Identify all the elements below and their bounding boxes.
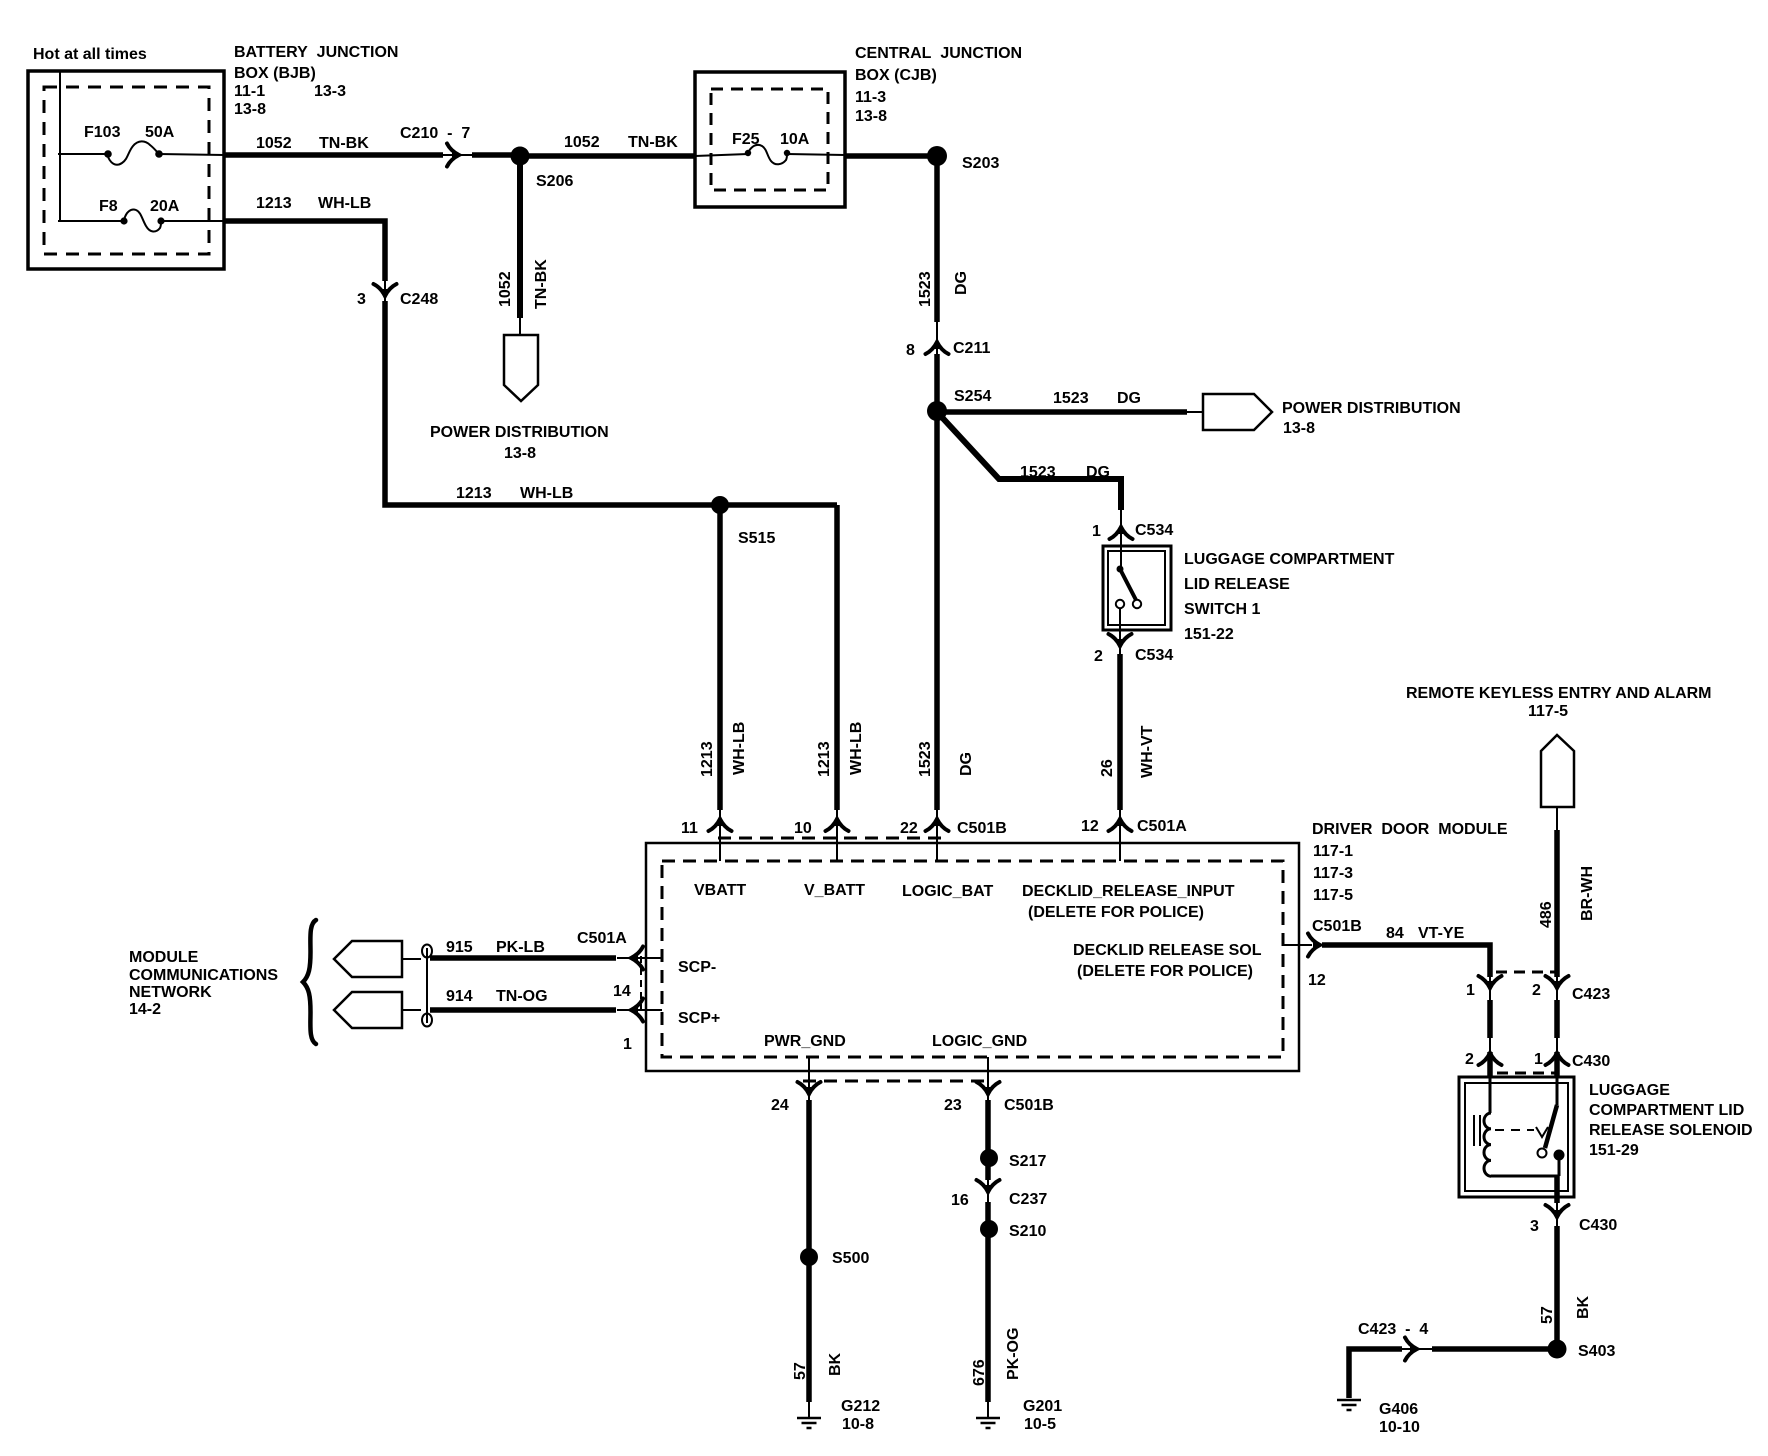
wire 1213 WH-LB from F8 to C248: [224, 221, 385, 281]
wire 26 WH-VT from switch to module pin 12: [1117, 654, 1123, 810]
svg-text:915: 915: [446, 939, 473, 956]
svg-text:11: 11: [681, 820, 698, 837]
svg-text:14: 14: [613, 983, 631, 1000]
driver door module inner dashed box: [662, 861, 1283, 1057]
connector C501B output arrow: [1308, 934, 1324, 957]
solenoid coil core lines: [1473, 1115, 1475, 1146]
svg-text:24: 24: [771, 1097, 789, 1114]
fuse F25 10A: [695, 131, 845, 164]
svg-text:16: 16: [951, 1192, 969, 1209]
splice S217: [980, 1149, 998, 1167]
wire 57 BK from C430 to S403: [1554, 1226, 1560, 1349]
svg-text:1: 1: [1466, 982, 1475, 999]
svg-text:NETWORK: NETWORK: [129, 984, 212, 1001]
svg-text:PK-OG: PK-OG: [1005, 1328, 1022, 1380]
svg-text:8: 8: [906, 342, 915, 359]
splice S210: [980, 1220, 998, 1238]
svg-text:50A: 50A: [145, 124, 175, 141]
wire 1213 WH-LB S515 down to module pin 11: [717, 505, 723, 810]
svg-text:C501B: C501B: [1312, 918, 1362, 935]
svg-text:WH-LB: WH-LB: [848, 722, 865, 775]
svg-text:13-8: 13-8: [855, 108, 887, 125]
svg-text:WH-LB: WH-LB: [318, 195, 371, 212]
connector C430 dashed line: [1497, 1072, 1556, 1075]
svg-text:S500: S500: [832, 1250, 869, 1267]
svg-text:C423 - 4: C423 - 4: [1358, 1321, 1428, 1338]
svg-text:C430: C430: [1579, 1217, 1617, 1234]
svg-text:DRIVER DOOR MODULE: DRIVER DOOR MODULE: [1312, 821, 1508, 838]
off-page connector network flag lower: [334, 992, 402, 1028]
splice S254: [927, 401, 947, 421]
svg-text:RELEASE SOLENOID: RELEASE SOLENOID: [1589, 1122, 1753, 1139]
svg-text:C211: C211: [953, 340, 990, 357]
connector C211 pin 8 arrow: [926, 339, 949, 355]
svg-text:CENTRAL JUNCTION: CENTRAL JUNCTION: [855, 45, 1022, 62]
svg-text:DG: DG: [1086, 464, 1110, 481]
brace: [303, 920, 316, 1044]
svg-text:57: 57: [792, 1362, 809, 1380]
svg-text:1213: 1213: [699, 741, 716, 777]
module pin 23 wire stub: [987, 1057, 989, 1100]
wire 57 BK pin 24 to G212: [806, 1100, 812, 1402]
solenoid coil: [1489, 1077, 1492, 1113]
wire 1052 TN-BK from BJB to S206: [224, 152, 443, 158]
svg-text:84: 84: [1386, 925, 1404, 942]
svg-text:REMOTE KEYLESS ENTRY AND ALARM: REMOTE KEYLESS ENTRY AND ALARM: [1406, 685, 1712, 702]
twisted pair symbol: [422, 945, 432, 1027]
svg-text:20A: 20A: [150, 198, 180, 215]
wire 676 PK-OG pin 23 to G201: [985, 1100, 991, 1180]
svg-text:C501A: C501A: [577, 930, 627, 947]
svg-text:22: 22: [900, 820, 918, 837]
svg-text:1523: 1523: [1053, 390, 1089, 407]
svg-text:11-1: 11-1: [234, 83, 265, 100]
svg-text:11-3: 11-3: [855, 89, 886, 106]
svg-text:MODULE: MODULE: [129, 949, 199, 966]
switch contacts and blade: [1116, 566, 1141, 655]
svg-text:WH-LB: WH-LB: [731, 722, 748, 775]
central junction box CJB inner dashed box: [711, 89, 828, 190]
svg-text:BR-WH: BR-WH: [1579, 866, 1596, 921]
module pin 11 arrow: [709, 816, 732, 832]
module output stub C501B pin 12: [1283, 944, 1312, 946]
connector C237 pin 16 arrow: [977, 1180, 1000, 1196]
svg-text:TN-BK: TN-BK: [533, 259, 550, 309]
svg-text:1052: 1052: [256, 135, 292, 152]
svg-text:486: 486: [1538, 901, 1555, 928]
svg-text:57: 57: [1539, 1306, 1556, 1324]
connector C210 pin 7 arrow: [447, 144, 463, 167]
connector C430 pin 1 arrow: [1546, 1050, 1569, 1066]
connector C501A dashed line: [640, 956, 642, 1012]
svg-text:BK: BK: [827, 1352, 844, 1376]
svg-text:1: 1: [1092, 523, 1101, 540]
module pin 10 arrow: [826, 816, 849, 832]
svg-text:POWER DISTRIBUTION: POWER DISTRIBUTION: [1282, 400, 1461, 417]
svg-text:F103: F103: [84, 124, 121, 141]
svg-text:C501A: C501A: [1137, 818, 1187, 835]
svg-text:LUGGAGE: LUGGAGE: [1589, 1082, 1670, 1099]
svg-text:BK: BK: [1575, 1295, 1592, 1319]
solenoid switch blade and contacts: [1556, 1077, 1559, 1105]
wire from CJB to S203: [845, 153, 937, 159]
svg-text:C501B: C501B: [1004, 1097, 1054, 1114]
svg-text:C501B: C501B: [957, 820, 1007, 837]
svg-text:117-1: 117-1: [1313, 843, 1353, 860]
svg-text:G201: G201: [1023, 1398, 1062, 1415]
svg-text:117-3: 117-3: [1313, 865, 1353, 882]
module pin 23 arrow connector C501B: [977, 1082, 1000, 1098]
wire 914 TN-OG SCP+: [430, 1007, 616, 1013]
connector C423 pin 4 arrow: [1405, 1338, 1421, 1361]
svg-text:1213: 1213: [456, 485, 492, 502]
svg-text:WH-LB: WH-LB: [520, 485, 573, 502]
svg-text:12: 12: [1308, 972, 1326, 989]
svg-text:13-3: 13-3: [314, 83, 346, 100]
svg-text:S203: S203: [962, 155, 999, 172]
solenoid actuator dashed link: [1495, 1129, 1534, 1131]
svg-text:1: 1: [1534, 1051, 1543, 1068]
wire from solenoid to C430 pin 3: [1554, 1176, 1560, 1203]
svg-text:13-8: 13-8: [234, 101, 266, 118]
svg-text:S515: S515: [738, 530, 775, 547]
svg-text:LID RELEASE: LID RELEASE: [1184, 576, 1290, 593]
svg-text:DG: DG: [953, 271, 970, 295]
off-page connector network flag upper: [334, 941, 402, 977]
wire 1052 TN-BK S206 branch down: [517, 156, 523, 318]
wire 1523 DG from S254 diagonal to switch: [938, 413, 1121, 510]
splice S203: [927, 146, 947, 166]
connector C501B dashed line bottom: [803, 1080, 985, 1083]
ground G406: [1337, 1400, 1361, 1410]
connector C430 pin 3 arrow: [1546, 1205, 1569, 1221]
svg-text:1523: 1523: [1020, 464, 1056, 481]
svg-text:LUGGAGE COMPARTMENT: LUGGAGE COMPARTMENT: [1184, 551, 1395, 568]
module pin 24 wire stub: [808, 1057, 810, 1100]
svg-text:F25: F25: [732, 131, 760, 148]
svg-text:S403: S403: [1578, 1343, 1615, 1360]
svg-text:POWER DISTRIBUTION: POWER DISTRIBUTION: [430, 424, 609, 441]
svg-text:COMPARTMENT LID: COMPARTMENT LID: [1589, 1102, 1744, 1119]
wire 1213 WH-LB from C248 down and right to pin10 corner: [385, 301, 837, 505]
splice S403: [1548, 1340, 1567, 1359]
connector C430 pin 2 arrow: [1479, 1050, 1502, 1066]
svg-text:TN-BK: TN-BK: [628, 134, 678, 151]
svg-text:DECKLID RELEASE SOL: DECKLID RELEASE SOL: [1073, 942, 1262, 959]
svg-text:BOX (BJB): BOX (BJB): [234, 65, 316, 82]
svg-text:117-5: 117-5: [1313, 887, 1353, 904]
svg-text:V_BATT: V_BATT: [804, 882, 865, 899]
wire from S403 to ground G406: [1432, 1346, 1557, 1352]
connector C534 pin 2 arrow: [1109, 634, 1132, 650]
splice S515: [711, 496, 729, 514]
svg-text:F8: F8: [99, 198, 118, 215]
ground G212: [797, 1418, 821, 1428]
wire 1213 WH-LB corner down to module pin 10: [834, 505, 840, 810]
splice S206: [511, 147, 530, 166]
fuse F8 20A: [58, 198, 224, 232]
svg-text:1213: 1213: [256, 195, 292, 212]
svg-text:SCP-: SCP-: [678, 959, 716, 976]
wire 1052 TN-BK from S206 to CJB: [520, 153, 695, 159]
fuse F103 50A: [58, 124, 224, 165]
svg-text:1523: 1523: [917, 741, 934, 777]
svg-text:C237: C237: [1009, 1191, 1047, 1208]
svg-text:10-5: 10-5: [1024, 1416, 1056, 1433]
svg-text:BOX (CJB): BOX (CJB): [855, 67, 937, 84]
svg-text:(DELETE FOR POLICE): (DELETE FOR POLICE): [1077, 963, 1253, 980]
svg-text:13-8: 13-8: [1283, 420, 1315, 437]
connector C423 pin 2 arrow: [1546, 976, 1569, 992]
connector C248 pin 3 arrow: [374, 284, 397, 300]
svg-text:3: 3: [357, 291, 366, 308]
svg-text:DG: DG: [1117, 390, 1141, 407]
svg-text:C210 - 7: C210 - 7: [400, 125, 470, 142]
svg-text:914: 914: [446, 988, 473, 1005]
svg-text:1052: 1052: [497, 271, 514, 307]
svg-text:151-29: 151-29: [1589, 1142, 1639, 1159]
svg-text:DECKLID_RELEASE_INPUT: DECKLID_RELEASE_INPUT: [1022, 883, 1235, 900]
svg-text:10-10: 10-10: [1379, 1419, 1420, 1436]
svg-text:VT-YE: VT-YE: [1418, 925, 1465, 942]
svg-text:SWITCH 1: SWITCH 1: [1184, 601, 1261, 618]
svg-text:1052: 1052: [564, 134, 600, 151]
svg-text:S210: S210: [1009, 1223, 1046, 1240]
svg-text:23: 23: [944, 1097, 962, 1114]
svg-text:151-22: 151-22: [1184, 626, 1234, 643]
svg-text:3: 3: [1530, 1218, 1539, 1235]
svg-text:2: 2: [1532, 982, 1541, 999]
svg-text:SCP+: SCP+: [678, 1010, 720, 1027]
svg-text:PWR_GND: PWR_GND: [764, 1033, 846, 1050]
svg-text:1: 1: [623, 1036, 632, 1053]
svg-text:117-5: 117-5: [1528, 703, 1568, 720]
svg-text:1523: 1523: [917, 271, 934, 307]
svg-text:C248: C248: [400, 291, 438, 308]
module pin 24 arrow: [798, 1082, 821, 1098]
svg-text:DG: DG: [958, 752, 975, 776]
svg-text:10A: 10A: [780, 131, 810, 148]
svg-text:G212: G212: [841, 1398, 880, 1415]
connector C501B dashed line over pins 11 10 22: [718, 837, 942, 840]
connector C501A SCP+ arrow: [628, 999, 644, 1022]
luggage compartment lid release switch 1 box: [1103, 546, 1171, 630]
svg-text:BATTERY JUNCTION: BATTERY JUNCTION: [234, 44, 398, 61]
off-page connector POWER DISTRIBUTION down: [504, 335, 538, 401]
connector C423 pin 1 arrow: [1479, 976, 1502, 992]
battery junction box BJB outer box: [28, 71, 224, 269]
svg-text:2: 2: [1465, 1051, 1474, 1068]
svg-text:2: 2: [1094, 648, 1103, 665]
svg-text:S206: S206: [536, 173, 573, 190]
wire 915 PK-LB SCP-: [430, 955, 616, 961]
svg-text:C430: C430: [1572, 1053, 1610, 1070]
off-page connector remote keyless entry flag: [1541, 735, 1574, 807]
wire 84 VT-YE from module to solenoid: [1322, 945, 1490, 977]
luggage compartment lid release solenoid box: [1459, 1077, 1574, 1197]
svg-text:676: 676: [971, 1359, 988, 1386]
svg-text:TN-OG: TN-OG: [496, 988, 548, 1005]
svg-text:Hot at all times: Hot at all times: [33, 46, 147, 63]
battery junction box BJB inner dashed box: [44, 87, 209, 254]
driver door module outer box: [646, 843, 1299, 1071]
svg-text:WH-VT: WH-VT: [1139, 725, 1156, 778]
module pin 12 arrow connector C501A: [1109, 816, 1132, 832]
central junction box CJB outer box: [695, 72, 845, 207]
connector C534 pin 1 arrow: [1110, 524, 1133, 540]
svg-text:26: 26: [1099, 759, 1116, 777]
ground G201: [976, 1418, 1000, 1428]
svg-text:1213: 1213: [816, 741, 833, 777]
wire 1523 DG from S254 to power distribution: [937, 409, 1187, 415]
svg-text:12: 12: [1081, 818, 1099, 835]
wire 486 BR-WH from keyless down: [1556, 807, 1558, 830]
svg-text:LOGIC_BAT: LOGIC_BAT: [902, 883, 993, 900]
svg-text:VBATT: VBATT: [694, 882, 746, 899]
module pin 22 arrow: [917, 741, 934, 777]
connector C423 dashed line: [1496, 971, 1559, 974]
svg-text:10-8: 10-8: [842, 1416, 874, 1433]
svg-text:13-8: 13-8: [504, 445, 536, 462]
svg-text:C534: C534: [1135, 522, 1173, 539]
svg-text:G406: G406: [1379, 1401, 1418, 1418]
svg-text:PK-LB: PK-LB: [496, 939, 545, 956]
svg-text:LOGIC_GND: LOGIC_GND: [932, 1033, 1027, 1050]
wire 1523 DG from S203 down through C211 to S254 and module pin 22: [934, 156, 940, 322]
svg-text:COMMUNICATIONS: COMMUNICATIONS: [129, 967, 278, 984]
splice S500: [800, 1248, 818, 1266]
connector C501A SCP- arrow: [628, 947, 644, 970]
svg-text:C534: C534: [1135, 647, 1173, 664]
svg-text:10: 10: [794, 820, 812, 837]
svg-text:TN-BK: TN-BK: [319, 135, 369, 152]
off-page connector POWER DISTRIBUTION right: [1203, 394, 1272, 430]
svg-text:S217: S217: [1009, 1153, 1046, 1170]
svg-text:(DELETE FOR POLICE): (DELETE FOR POLICE): [1028, 904, 1204, 921]
svg-text:S254: S254: [954, 388, 991, 405]
wire fuse feed vertical inside BJB: [59, 71, 61, 221]
svg-text:C423: C423: [1572, 986, 1610, 1003]
svg-text:14-2: 14-2: [129, 1001, 161, 1018]
